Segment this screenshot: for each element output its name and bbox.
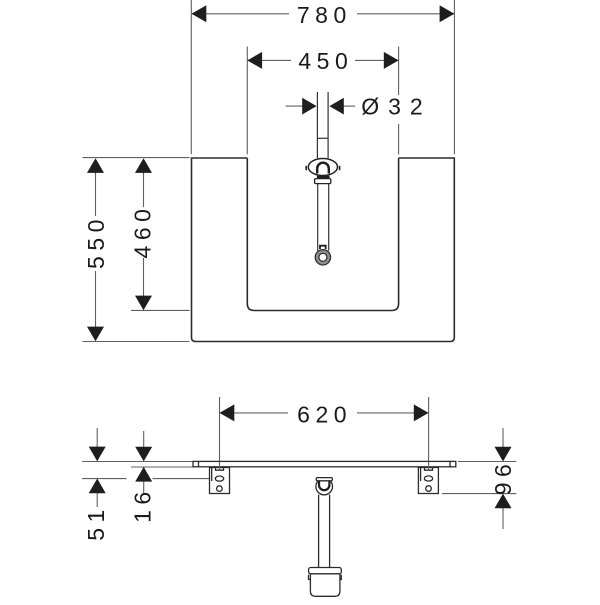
svg-text:51: 51 bbox=[83, 504, 109, 541]
svg-text:Ø32: Ø32 bbox=[361, 94, 431, 120]
svg-text:450: 450 bbox=[298, 48, 353, 74]
svg-text:460: 460 bbox=[129, 204, 155, 259]
svg-text:780: 780 bbox=[297, 2, 352, 28]
svg-text:620: 620 bbox=[297, 401, 352, 427]
svg-text:16: 16 bbox=[130, 486, 156, 523]
svg-text:550: 550 bbox=[83, 214, 109, 269]
svg-text:96: 96 bbox=[490, 459, 516, 496]
